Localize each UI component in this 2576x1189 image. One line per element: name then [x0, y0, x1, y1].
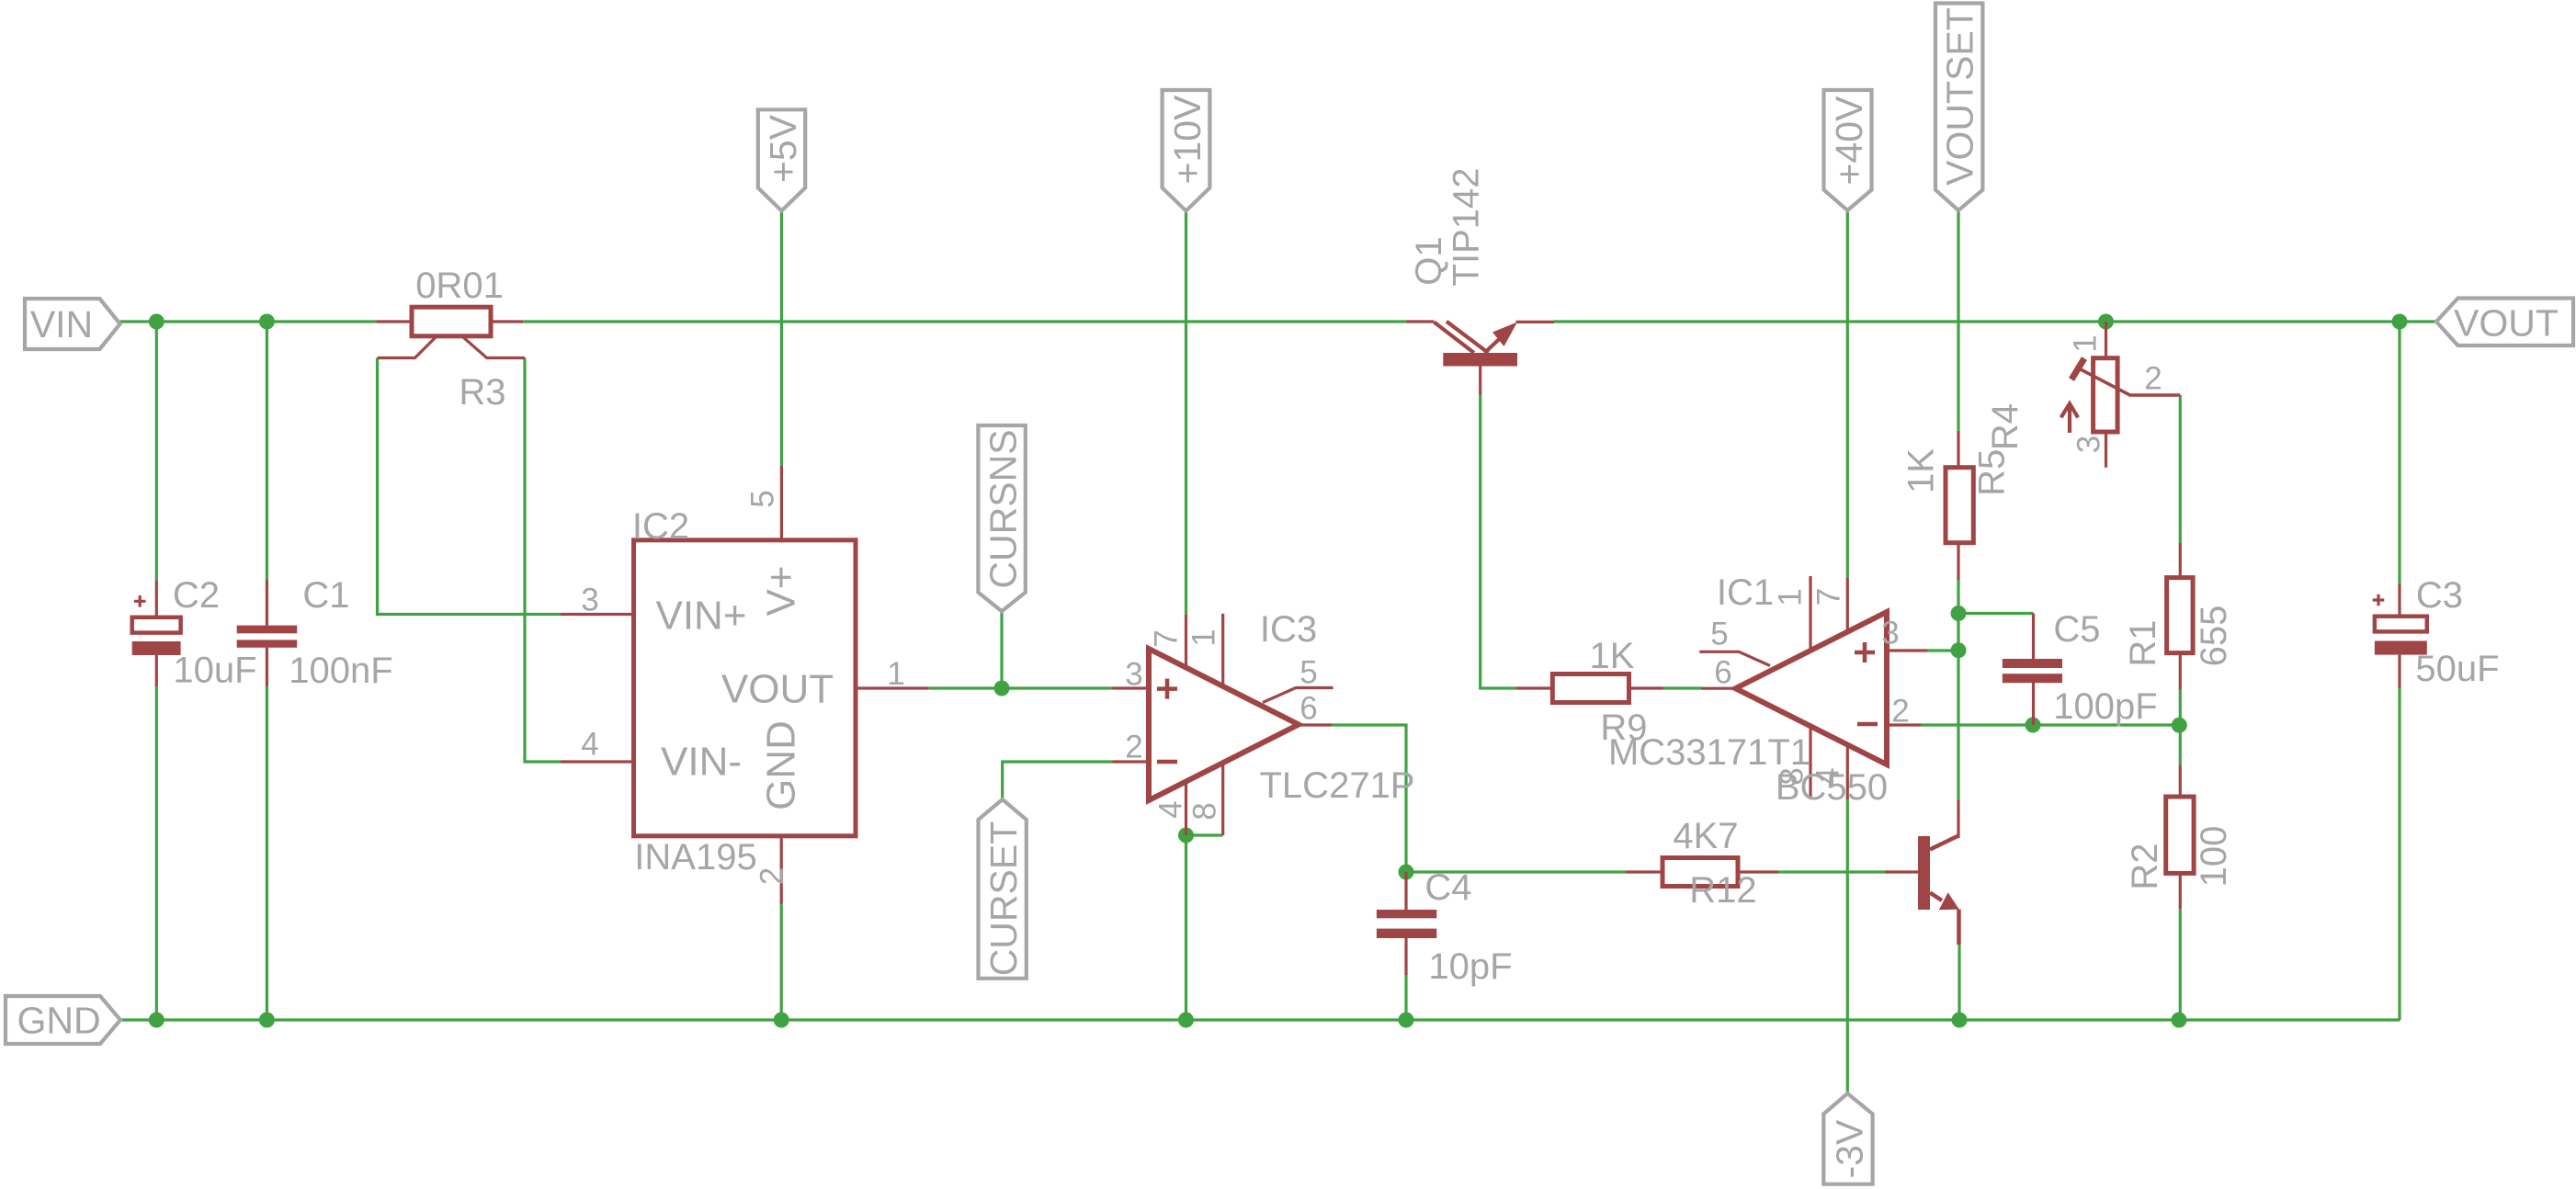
node +40V supply flag: [1824, 90, 1872, 210]
svg-text:2: 2: [2144, 361, 2162, 397]
svg-text:10pF: 10pF: [1428, 946, 1512, 987]
svg-text:5: 5: [1710, 617, 1728, 652]
wire IC2 pin1 to IC3 pin3: [929, 686, 1113, 689]
wire R3 sense right: [525, 358, 561, 763]
resistor R12 4K7: [1626, 858, 1778, 887]
wire IC1 pin4 to -3V: [1846, 799, 1849, 1093]
svg-text:+10V: +10V: [1166, 95, 1209, 185]
svg-text:8: 8: [1775, 767, 1810, 785]
svg-text:VIN-: VIN-: [661, 740, 742, 785]
svg-text:V+: V+: [759, 565, 804, 616]
node junction IC3 pin4 pin8: [1178, 828, 1194, 844]
svg-text:C1: C1: [302, 575, 349, 616]
svg-text:GND: GND: [759, 720, 804, 810]
node junction GND BC550: [1952, 1013, 1968, 1028]
wire R3 sense left: [378, 358, 562, 615]
wire C5 top tap: [1958, 612, 2034, 615]
node junction rail C3: [2392, 314, 2408, 330]
wire VOUTSET to R5: [1957, 210, 1959, 431]
wire IC3 out to C4 junction: [1332, 725, 1406, 872]
transistor BC550: [1885, 800, 1959, 945]
wire R12 to BC550 base: [1778, 870, 1885, 873]
node CURSET flag: [979, 799, 1027, 979]
wire VIN top rail middle: [523, 320, 1406, 323]
node junction GND IC3: [1178, 1013, 1194, 1028]
potentiometer R4: [2061, 322, 2181, 468]
wire C4 bottom to GND: [1404, 975, 1407, 1020]
svg-text:655: 655: [2194, 606, 2234, 667]
wire IC1 pin2 net: [1921, 723, 2179, 726]
svg-text:C3: C3: [2416, 575, 2463, 616]
node junction C4 top: [1399, 865, 1414, 880]
svg-text:100: 100: [2194, 826, 2234, 888]
svg-text:5: 5: [745, 490, 781, 507]
wire +5V to IC2 pin5: [780, 211, 783, 467]
svg-text:VOUT: VOUT: [721, 667, 834, 712]
wire IC2 pin2 to GND: [780, 904, 783, 1020]
node junction CURSNS: [994, 681, 1010, 696]
svg-text:2: 2: [1891, 694, 1909, 730]
node -3V supply flag: [1823, 1093, 1872, 1184]
svg-text:Q1: Q1: [1409, 236, 1449, 285]
wire IC3 pin4 pin8 to GND: [1186, 835, 1223, 1020]
svg-text:+40V: +40V: [1828, 96, 1870, 186]
node junction R1 R2: [2172, 718, 2187, 733]
svg-text:6: 6: [1714, 655, 1731, 691]
wire GND rail: [120, 1018, 2400, 1021]
svg-text:VOUT: VOUT: [2454, 302, 2559, 345]
svg-text:IC2: IC2: [632, 506, 689, 547]
resistor R1 655: [2167, 543, 2194, 690]
node junction GND C4: [1399, 1013, 1414, 1028]
svg-text:R3: R3: [459, 372, 505, 413]
node GND flag: [6, 996, 120, 1044]
svg-text:4: 4: [1153, 800, 1189, 818]
node junction GND IC2: [774, 1013, 789, 1028]
node VOUTSET flag: [1935, 4, 1982, 211]
svg-text:3: 3: [1125, 657, 1142, 693]
resistor R5 1K: [1946, 431, 1973, 580]
op-amp IC1 MC33171T1: [1699, 576, 1927, 799]
svg-text:100nF: 100nF: [289, 651, 392, 691]
svg-text:3: 3: [2071, 436, 2107, 453]
svg-text:GND: GND: [17, 1000, 100, 1042]
svg-text:1: 1: [887, 656, 904, 692]
wire Q1 base down to R9: [1481, 395, 1516, 689]
op-amp IC2 INA195 box: [561, 466, 929, 904]
wire VOUT top rail right: [1554, 320, 2437, 323]
svg-text:4K7: 4K7: [1673, 816, 1738, 856]
svg-text:2: 2: [1125, 730, 1142, 765]
wire +40V to IC1 pin7: [1846, 210, 1849, 578]
svg-text:1K: 1K: [1901, 448, 1942, 493]
svg-text:1: 1: [1773, 588, 1809, 606]
svg-text:100pF: 100pF: [2053, 686, 2157, 727]
svg-text:VIN: VIN: [30, 303, 93, 345]
svg-text:10uF: 10uF: [173, 651, 256, 691]
svg-text:R5: R5: [1972, 449, 2013, 496]
svg-text:4: 4: [581, 727, 598, 763]
capacitor C2 10uF: [132, 580, 181, 686]
svg-text:IC3: IC3: [1260, 609, 1317, 650]
svg-text:7: 7: [1149, 629, 1185, 647]
transistor Q1 TIP142: [1406, 322, 1554, 395]
node junction GND R2: [2172, 1013, 2187, 1028]
wire CURSNS: [1000, 611, 1003, 688]
svg-text:C5: C5: [2053, 609, 2100, 650]
node CURSNS flag: [978, 425, 1025, 611]
svg-text:VIN+: VIN+: [655, 594, 746, 639]
capacitor C4 10pF: [1377, 872, 1436, 975]
wire R5 bottom to BC550 collector: [1957, 580, 1959, 800]
node junction VIN C1: [259, 314, 275, 330]
wire C2 vertical: [155, 322, 158, 1020]
capacitor C3 50uF: [2373, 583, 2427, 689]
node junction C5 top: [1951, 606, 1967, 621]
svg-text:R1: R1: [2123, 619, 2163, 666]
svg-text:R4: R4: [1985, 403, 2026, 450]
svg-text:+5V: +5V: [762, 114, 804, 183]
svg-text:6: 6: [1299, 691, 1317, 727]
svg-text:C4: C4: [1424, 867, 1471, 908]
svg-text:C2: C2: [173, 575, 220, 616]
svg-text:0R01: 0R01: [415, 266, 504, 306]
svg-text:50uF: 50uF: [2415, 649, 2499, 689]
node junction C5 bottom: [2026, 718, 2041, 733]
wire R1 to junction: [2179, 690, 2182, 765]
svg-text:IC1: IC1: [1717, 572, 1774, 613]
svg-text:-3V: -3V: [1829, 1119, 1871, 1178]
node junction IC1 pin3: [1951, 642, 1967, 658]
wire CURSET to IC3 pin2: [1003, 762, 1113, 799]
svg-text:R12: R12: [1689, 870, 1756, 911]
svg-text:VOUTSET: VOUTSET: [1939, 7, 1981, 186]
svg-text:1: 1: [1186, 628, 1222, 646]
capacitor C1 100nF: [237, 580, 298, 686]
wire C1 vertical: [266, 322, 268, 1020]
resistor R9 1K: [1516, 674, 1664, 703]
node VOUT flag: [2436, 299, 2573, 346]
node +5V supply flag: [758, 109, 805, 210]
svg-text:8: 8: [1187, 802, 1223, 820]
svg-text:CURSNS: CURSNS: [982, 429, 1025, 588]
wire VIN top rail left: [120, 320, 377, 323]
node junction GND C2: [149, 1013, 165, 1028]
svg-text:R2: R2: [2125, 843, 2165, 889]
svg-text:5: 5: [1299, 655, 1317, 691]
svg-text:7: 7: [1811, 588, 1847, 606]
resistor R3 0R01: [376, 307, 525, 357]
wire C3 vertical: [2398, 322, 2400, 1020]
node junction rail R4: [2098, 314, 2114, 330]
svg-text:1K: 1K: [1590, 636, 1635, 676]
svg-text:TLC271P: TLC271P: [1260, 765, 1415, 806]
node VIN flag: [25, 299, 120, 349]
wire R2 to GND: [2179, 909, 2182, 1020]
svg-text:CURSET: CURSET: [982, 821, 1025, 977]
wire BC550 emitter to GND: [1958, 945, 1960, 1020]
svg-text:TIP142: TIP142: [1447, 168, 1487, 287]
node junction GND C1: [259, 1013, 275, 1028]
resistor R2 100: [2166, 764, 2194, 909]
wire C4 junction to R12: [1406, 870, 1626, 873]
wire R4 wiper to R1: [2179, 395, 2182, 543]
wire R9 to IC1 pin6: [1663, 686, 1701, 689]
wire +10V to IC3 pin7: [1185, 211, 1187, 615]
capacitor C5 100pF: [2003, 614, 2062, 726]
wire IC1 pin3 to node: [1927, 649, 1958, 651]
svg-text:4: 4: [1810, 767, 1846, 785]
svg-text:2: 2: [755, 867, 790, 885]
svg-text:INA195: INA195: [634, 837, 756, 878]
node junction VIN C2: [149, 314, 165, 330]
svg-text:3: 3: [1881, 616, 1899, 651]
svg-text:3: 3: [581, 583, 598, 618]
svg-text:1: 1: [2068, 334, 2104, 352]
node +10V supply flag: [1163, 90, 1210, 211]
op-amp IC3 TLC271P: [1113, 614, 1333, 835]
